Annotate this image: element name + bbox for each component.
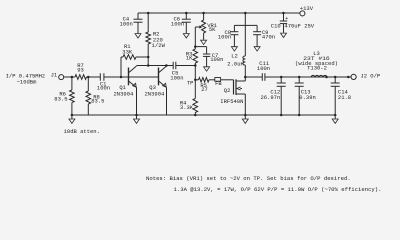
node Q3 collector rail	[165, 64, 168, 67]
svg-text:33K: 33K	[122, 48, 133, 55]
connector J2 output	[351, 72, 380, 79]
svg-text:J2 O/P: J2 O/P	[360, 72, 380, 79]
node J2	[347, 76, 350, 79]
node TP test point	[187, 79, 197, 87]
resistor R2 220 1/2W	[146, 13, 166, 66]
input label I/P 0.475MHz ~10dBm	[6, 72, 46, 85]
svg-text:10dB atten.: 10dB atten.	[64, 128, 100, 135]
svg-text:470n: 470n	[262, 33, 275, 40]
svg-text:83.5: 83.5	[91, 98, 104, 105]
node rail L2 branch	[244, 12, 247, 15]
ground bus wire	[72, 114, 335, 116]
svg-text:100n: 100n	[218, 33, 231, 40]
svg-text:1.3A @13.2V, = 17W, O/P 62V P/: 1.3A @13.2V, = 17W, O/P 62V P/P = 11.0W …	[174, 186, 382, 193]
capacitor C11	[257, 60, 270, 81]
svg-text:T130-2: T130-2	[307, 65, 327, 72]
svg-text:100n: 100n	[120, 21, 133, 28]
svg-text:J1: J1	[51, 72, 58, 79]
svg-text:+13V: +13V	[300, 5, 314, 12]
capacitor C14	[331, 77, 351, 115]
svg-text:100n: 100n	[210, 56, 223, 63]
node rail C10	[282, 12, 285, 15]
collector rail wire	[137, 65, 174, 67]
node Q2 drain output	[244, 76, 247, 79]
resistor R7	[72, 62, 88, 79]
node bus emitters	[135, 114, 138, 117]
svg-text:~10dBm: ~10dBm	[17, 79, 38, 86]
svg-text:TP: TP	[187, 80, 194, 87]
node bus left	[71, 114, 74, 117]
node Q2 source ground	[244, 114, 247, 117]
capacitor C12	[260, 77, 285, 115]
inductor L3 23T #16 (wide spaced) T130-2	[295, 50, 338, 77]
node rail R2	[147, 12, 150, 15]
ground attenuator	[69, 115, 75, 123]
svg-text:100n: 100n	[257, 65, 270, 72]
capacitor C5	[170, 62, 183, 82]
resistor R4 3.3K	[180, 80, 198, 115]
output filter wire	[265, 76, 351, 78]
wire Q1 emitter	[136, 88, 138, 116]
wire C5 to bias node	[176, 65, 196, 67]
connector J1	[51, 72, 64, 80]
svg-text:IRF540N: IRF540N	[220, 98, 243, 105]
terminal +13V	[300, 5, 314, 16]
node R8 top	[87, 76, 90, 79]
svg-text:2.0uH: 2.0uH	[227, 61, 244, 68]
svg-text:C10: C10	[271, 22, 281, 29]
wire bias node to TP	[194, 66, 196, 80]
wire Q2 drain	[244, 77, 246, 81]
svg-text:27: 27	[201, 86, 208, 93]
svg-text:83.5: 83.5	[54, 95, 67, 102]
svg-text:Q2: Q2	[224, 87, 231, 94]
node R1 tap	[120, 76, 123, 79]
ground C14	[332, 115, 338, 123]
node C13 bottom	[298, 114, 301, 117]
capacitor C7	[195, 47, 223, 67]
ferrite bead FB	[215, 78, 223, 88]
svg-text:100n: 100n	[170, 75, 183, 82]
svg-text:1K: 1K	[186, 54, 193, 61]
ground C9	[254, 47, 260, 51]
ground Q2 source	[242, 115, 248, 123]
inductor L2 2.0uH	[227, 25, 245, 77]
label 10dB atten.	[64, 128, 100, 135]
wire R8 to C1	[88, 76, 100, 78]
svg-text:L2: L2	[231, 53, 238, 60]
svg-text:FB: FB	[215, 80, 222, 87]
node C12 bottom	[280, 114, 283, 117]
capacitor C1	[97, 73, 110, 91]
svg-text:93: 93	[77, 67, 84, 74]
svg-text:+: +	[285, 16, 288, 22]
svg-text:Notes: Bias (VR1) set to ~2V: Notes: Bias (VR1) set to ~2V on TP. Set …	[146, 175, 351, 182]
resistor R6	[54, 77, 74, 115]
node bias-C7	[194, 45, 197, 48]
node L3 right	[325, 76, 328, 79]
wire base bus Q1-Q3	[129, 76, 159, 78]
svg-text:1/2W: 1/2W	[152, 42, 166, 49]
svg-text:100n: 100n	[171, 21, 184, 28]
power rail +13V	[138, 12, 300, 14]
wire FB to gate	[221, 79, 234, 81]
notes line 1	[146, 175, 351, 182]
svg-text:470uF 25V: 470uF 25V	[284, 22, 314, 29]
svg-text:26.97n: 26.97n	[260, 94, 280, 101]
node C14 top	[334, 76, 337, 79]
svg-text:100n: 100n	[97, 84, 110, 91]
node C13 top	[298, 76, 301, 79]
ground VR1	[201, 40, 207, 44]
ground C6	[183, 34, 189, 38]
capacitor C8	[218, 25, 239, 46]
resistor R3 1K	[186, 47, 198, 66]
wire J1 to attenuator	[64, 76, 72, 78]
node R4 bottom	[194, 114, 197, 117]
wire drain to C11	[245, 76, 262, 78]
ground C10	[281, 33, 287, 37]
svg-text:3.3K: 3.3K	[180, 104, 194, 111]
svg-text:2N3904: 2N3904	[145, 90, 166, 97]
ground C4	[135, 34, 141, 38]
wire C1 to Q1 base	[104, 76, 129, 78]
svg-text:2N3904: 2N3904	[114, 90, 135, 97]
resistor R8	[86, 77, 104, 115]
capacitor C6	[171, 13, 191, 33]
transistor Q1 2N3904	[114, 66, 137, 97]
transistor Q3 2N3904	[145, 66, 167, 97]
node R3 bottom	[194, 64, 197, 67]
wire VR1 wiper down	[194, 27, 196, 47]
wire Q3 emitter	[166, 88, 168, 116]
capacitor C9	[253, 25, 275, 46]
potentiometer VR1 5K	[195, 13, 217, 40]
node rail VR1	[202, 12, 205, 15]
mosfet Q2 IRF540N	[220, 79, 245, 105]
svg-text:21.8: 21.8	[338, 94, 351, 101]
resistor R1 feedback 33K	[121, 43, 148, 77]
wire Q2 source	[244, 94, 246, 115]
resistor R5 27	[195, 78, 215, 94]
ground C7	[204, 67, 210, 71]
svg-text:5K: 5K	[209, 26, 216, 33]
node R2 collector rail	[147, 64, 150, 67]
notes line 2	[174, 186, 382, 193]
wire decoupling tee	[234, 24, 257, 26]
wire rail to decoupling tee	[244, 13, 246, 25]
node R6 top	[71, 76, 74, 79]
node C14 bottom	[334, 114, 337, 117]
capacitor C13	[295, 77, 316, 115]
node R1-R2 junction	[147, 56, 150, 59]
capacitor C4	[120, 13, 143, 33]
svg-text:0.39n: 0.39n	[299, 94, 316, 101]
ground C8	[231, 47, 237, 51]
ground emitters	[134, 115, 140, 123]
capacitor C10 470uF 25V	[271, 13, 315, 33]
node rail C6	[185, 12, 188, 15]
node C12 top	[280, 76, 283, 79]
